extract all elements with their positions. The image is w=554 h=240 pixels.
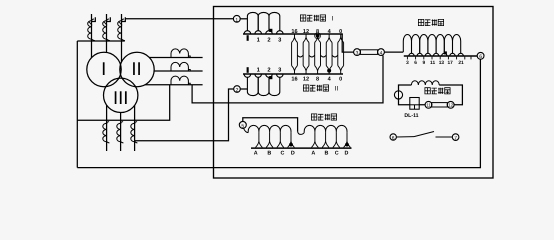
wire line3 to terminal4 <box>192 55 383 103</box>
svg-text:1: 1 <box>235 17 238 23</box>
svg-text:A: A <box>254 150 258 156</box>
top coil common bar <box>77 40 125 42</box>
terminal 2 <box>234 86 241 93</box>
svg-text:21: 21 <box>458 60 464 66</box>
svg-text:C: C <box>281 150 285 156</box>
wire t4 to working winding <box>384 51 403 53</box>
end dot left group <box>289 143 293 147</box>
transformer winding circle III <box>104 78 138 112</box>
working winding tap numbers <box>406 57 408 60</box>
svg-text:11: 11 <box>430 60 435 66</box>
zero-adjust winding left group <box>244 125 291 132</box>
wire phase3 to terminal 1 <box>125 18 233 20</box>
svg-text:6: 6 <box>414 60 417 66</box>
svg-text:I: I <box>101 58 106 79</box>
svg-text:8: 8 <box>316 77 319 83</box>
svg-text:2: 2 <box>267 67 270 74</box>
left bus wire <box>76 41 78 168</box>
transformer winding circle II <box>120 52 154 86</box>
svg-text:A: A <box>311 150 315 156</box>
switch blade <box>414 132 434 137</box>
svg-text:12: 12 <box>303 77 309 83</box>
galvanometer circle <box>394 91 402 99</box>
terminal 4 <box>378 49 385 56</box>
svg-text:16: 16 <box>291 77 297 83</box>
svg-text:2: 2 <box>267 37 270 44</box>
terminal 1 <box>233 15 240 22</box>
svg-text:6: 6 <box>479 54 482 60</box>
svg-text:16: 16 <box>291 29 297 35</box>
winding below III on line 3 <box>134 105 136 151</box>
tap dot winding I <box>269 29 272 32</box>
working tap bar <box>404 55 477 57</box>
zero-adjust tap bar <box>251 147 352 149</box>
label zero-adjust winding <box>311 114 316 120</box>
tap dot working winding <box>444 51 447 54</box>
svg-text:B: B <box>325 150 329 156</box>
svg-text:4: 4 <box>380 51 383 57</box>
wire t1 to balance winding I <box>240 18 247 20</box>
svg-text:13: 13 <box>439 60 445 66</box>
svg-text:I: I <box>332 16 334 23</box>
wire t5 to right group <box>243 118 298 132</box>
svg-text:12: 12 <box>448 103 453 108</box>
phase line 3 with disconnect switch and winding <box>121 14 123 62</box>
svg-text:D: D <box>344 150 348 156</box>
svg-text:9: 9 <box>422 60 425 66</box>
terminal 11 <box>425 101 432 108</box>
terminal 3 <box>354 49 361 56</box>
CT coil on output line 2 <box>154 70 202 72</box>
svg-text:II: II <box>131 58 141 79</box>
zero-adjust winding right group <box>298 125 347 134</box>
balance winding II loop sections <box>292 34 298 43</box>
working winding arches <box>403 34 411 53</box>
switch terminal left <box>390 134 396 140</box>
end dot right group <box>345 143 349 147</box>
wire bar to terminal 3 <box>342 34 353 52</box>
winding I tap labels 1 2 3 <box>247 35 249 41</box>
svg-text:7: 7 <box>454 136 457 142</box>
balance winding II lower arches <box>247 77 258 95</box>
link 11-12 <box>432 103 448 107</box>
svg-text:3: 3 <box>406 60 409 66</box>
terminal 7 <box>452 134 459 141</box>
tap dot lower winding <box>269 76 272 79</box>
winding II tap labels 1 2 3 <box>247 67 249 73</box>
wire line below III to terminal 2 <box>135 89 234 141</box>
CT coil on output line 1 <box>149 57 202 59</box>
wire t2 to balance winding II lower <box>240 88 247 90</box>
secondary winding coil <box>411 81 439 85</box>
CT coil on output line 3 <box>145 84 203 86</box>
svg-text:0: 0 <box>339 77 342 83</box>
label working winding <box>418 19 423 25</box>
bottom return wire <box>77 59 480 167</box>
svg-text:DL-11: DL-11 <box>404 113 418 119</box>
terminal 5 <box>239 121 246 128</box>
balance winding I arches <box>247 12 258 30</box>
secondary loop wiring <box>399 85 463 105</box>
relay DL-11 <box>410 98 419 110</box>
switch wire left <box>396 136 414 138</box>
svg-text:B: B <box>267 150 271 156</box>
winding below III on line 2 <box>120 112 122 151</box>
tap bar bottom <box>243 73 343 75</box>
svg-text:C: C <box>335 150 339 156</box>
phase line 1 with disconnect switch and winding <box>91 14 93 58</box>
phase line 2 with disconnect switch and winding <box>106 14 108 53</box>
tap bar top <box>243 33 343 35</box>
svg-text:II: II <box>335 86 339 93</box>
svg-text:11: 11 <box>426 103 431 108</box>
winding below III on line 1 <box>106 105 108 151</box>
transformer winding circle I <box>87 52 121 86</box>
svg-text:III: III <box>113 87 128 108</box>
svg-text:3: 3 <box>356 51 359 57</box>
svg-text:8: 8 <box>316 29 319 35</box>
tie wire left bus to line3 <box>77 85 169 121</box>
selector dot bottom tap4 <box>327 69 331 73</box>
label balance winding I <box>300 15 305 21</box>
label balance winding II <box>303 85 308 91</box>
selector dot top tap8 <box>316 34 320 38</box>
switch wire right <box>436 136 453 138</box>
svg-text:12: 12 <box>303 29 309 35</box>
terminal 12 <box>447 101 454 108</box>
enclosure box of bridge instrument <box>214 7 494 179</box>
link 3-4 <box>360 50 377 55</box>
svg-text:2: 2 <box>236 87 239 93</box>
terminal 6 at working bar <box>477 52 484 59</box>
svg-text:D: D <box>291 150 295 156</box>
label secondary winding <box>425 88 430 94</box>
svg-text:17: 17 <box>448 60 454 66</box>
svg-text:6: 6 <box>392 135 395 141</box>
